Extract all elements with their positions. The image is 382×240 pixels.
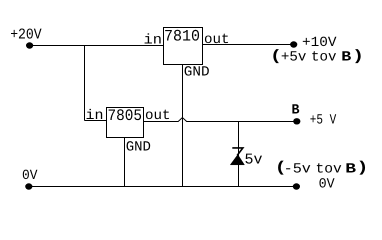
svg-text:0V: 0V [22,168,38,184]
svg-text:): ) [352,48,364,65]
svg-text:+5v: +5v [281,50,307,66]
svg-text:7810: 7810 [164,27,200,45]
svg-text:-5v: -5v [284,162,311,178]
svg-text:B: B [345,162,357,178]
svg-text:+5 V: +5 V [310,112,337,128]
svg-text:+20V: +20V [10,27,42,44]
svg-text:in: in [144,32,163,48]
svg-text:GND: GND [126,140,151,156]
svg-text:0V: 0V [319,176,336,192]
svg-text:tov: tov [311,50,337,66]
svg-text:7805: 7805 [108,107,143,125]
svg-text:GND: GND [184,65,210,81]
svg-text:out: out [204,32,230,48]
svg-text:B: B [292,103,301,119]
svg-text:B: B [341,50,352,66]
svg-text:out: out [145,108,171,124]
svg-text:in: in [86,108,104,124]
svg-text:5v: 5v [245,152,263,169]
svg-text:tov: tov [316,162,342,178]
svg-text:): ) [357,160,369,177]
